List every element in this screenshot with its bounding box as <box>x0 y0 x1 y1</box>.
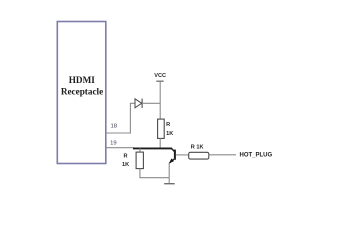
resistor R3 <box>136 152 143 169</box>
wire VCC to resistor R1 <box>159 81 161 119</box>
resistor R2 <box>189 152 209 159</box>
svg-text:19: 19 <box>110 141 117 147</box>
wire R3 bottom to emitter <box>140 169 169 178</box>
wire emitter down <box>168 163 170 184</box>
wire pin 18 to diode anode <box>106 103 135 133</box>
net collector node (bold wire) <box>133 148 175 152</box>
svg-text:HDMI: HDMI <box>69 75 95 85</box>
label R2 value R 1K <box>191 145 204 151</box>
svg-text:R 1K: R 1K <box>191 145 204 151</box>
resistor R1 <box>158 119 165 138</box>
diode D1 <box>135 99 142 108</box>
label R3 value R 1K <box>122 154 129 168</box>
transistor Q1 <box>169 150 175 164</box>
pin number 19 <box>110 141 117 147</box>
wire R1 bottom to collector node <box>159 138 161 148</box>
svg-text:VCC: VCC <box>154 73 166 79</box>
wire R2 to HOT_PLUG <box>209 154 236 156</box>
wire Q1 base to R2 <box>176 154 189 156</box>
svg-text:R: R <box>166 122 170 128</box>
svg-text:R: R <box>124 154 128 160</box>
svg-text:Receptacle: Receptacle <box>61 86 103 96</box>
pin number 18 <box>111 123 118 129</box>
wire collector node to R3 top <box>139 148 141 152</box>
label HDMI Receptacle <box>61 75 103 97</box>
svg-text:HOT_PLUG: HOT_PLUG <box>240 153 273 159</box>
svg-text:18: 18 <box>111 123 118 129</box>
svg-text:1K: 1K <box>166 131 173 137</box>
svg-text:1K: 1K <box>122 162 129 168</box>
HDMI receptacle J1 <box>57 22 106 164</box>
label R1 value R 1K <box>166 122 173 137</box>
net label HOT_PLUG <box>240 153 273 159</box>
wire diode cathode to VCC net <box>142 102 160 104</box>
ground <box>164 183 175 185</box>
power VCC <box>154 73 166 81</box>
wire pin 19 to collector node <box>106 147 134 149</box>
